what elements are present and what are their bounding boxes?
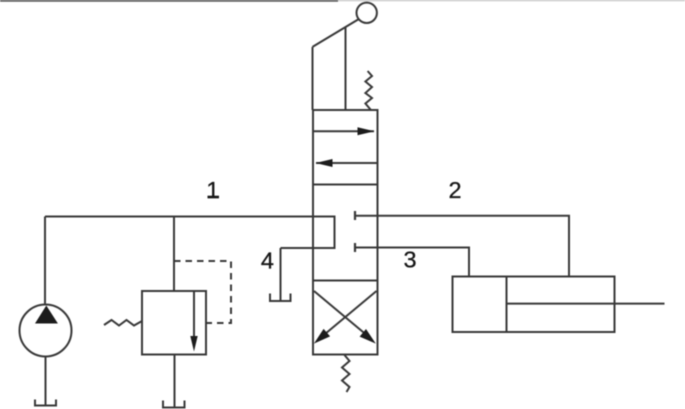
directional valve DV1 body [313, 110, 378, 355]
tank T1 [35, 400, 56, 406]
svg-text:2: 2 [448, 177, 461, 203]
wire net 3 [355, 248, 469, 277]
crossed arrow position c (tl-br) [314, 291, 376, 344]
wire net 1 (P line) [45, 217, 335, 249]
wire relief to tank [174, 355, 176, 408]
svg-text:4: 4 [261, 247, 274, 273]
crossed arrow position c (tr-bl) [314, 291, 377, 344]
wire pump outlet [44, 217, 46, 305]
flow arrow position a (left) [316, 159, 378, 167]
tank T2 [163, 401, 185, 408]
wire relief branch [173, 217, 175, 292]
blocked port tick 2 [354, 211, 356, 220]
relief valve V1 flow arrow [190, 291, 197, 352]
spring (valve top) [365, 71, 372, 110]
spring (relief valve) [104, 320, 142, 326]
lever [313, 3, 377, 110]
blocked port tick 3 [354, 243, 356, 252]
spring (valve bottom) [342, 355, 350, 392]
tank T3 [270, 294, 291, 302]
relief valve V1 body [142, 291, 206, 355]
wire net 4 drain [280, 248, 282, 301]
svg-text:3: 3 [403, 247, 416, 273]
cylinder C1 [453, 277, 665, 333]
flow arrow position a (right) [313, 127, 375, 135]
svg-text:1: 1 [206, 177, 219, 203]
pilot line (dashed) [174, 261, 231, 323]
wire pump suction [45, 357, 47, 406]
pump P1 [20, 305, 72, 357]
wire net 2 [355, 216, 569, 277]
